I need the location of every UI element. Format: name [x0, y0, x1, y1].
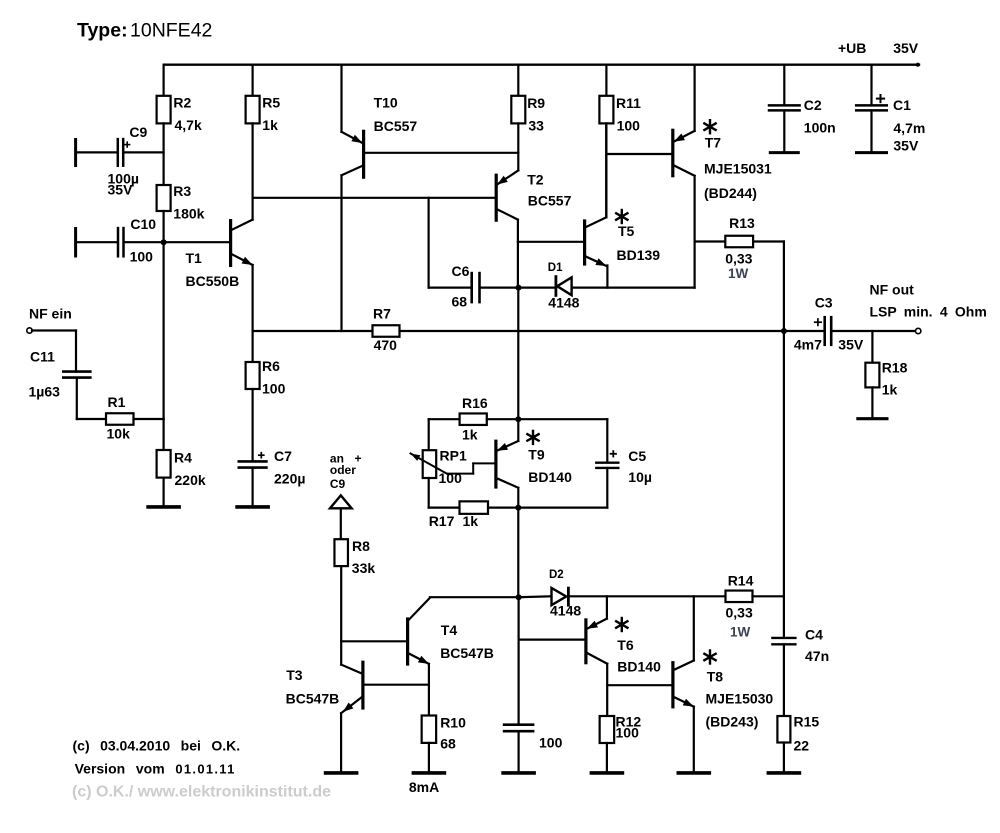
svg-text:T2: T2 — [527, 172, 544, 188]
svg-text:T6: T6 — [617, 637, 634, 653]
svg-text:C7: C7 — [274, 448, 292, 464]
svg-text:NF ein: NF ein — [29, 305, 72, 321]
svg-text:R7: R7 — [373, 306, 391, 322]
svg-text:470: 470 — [374, 337, 398, 353]
svg-text:T3: T3 — [286, 667, 303, 683]
svg-text:1W: 1W — [728, 266, 749, 281]
svg-text:BD140: BD140 — [528, 469, 572, 485]
svg-text:R8: R8 — [352, 538, 370, 554]
svg-text:4,7m: 4,7m — [893, 120, 925, 136]
svg-text:47n: 47n — [805, 648, 829, 664]
svg-text:R18: R18 — [882, 359, 908, 375]
svg-text:(c) 03.04.2010 bei O.K.: (c) 03.04.2010 bei O.K. — [73, 738, 241, 754]
svg-text:RP1: RP1 — [440, 448, 467, 464]
svg-text:R5: R5 — [262, 95, 280, 111]
svg-text:BC547B: BC547B — [440, 645, 494, 661]
svg-text:(BD243): (BD243) — [706, 714, 759, 730]
svg-text:R14: R14 — [728, 573, 754, 589]
svg-text:R4: R4 — [174, 450, 192, 466]
svg-text:100: 100 — [130, 249, 154, 265]
svg-text:R10: R10 — [440, 714, 466, 730]
svg-text:4148: 4148 — [548, 294, 579, 310]
svg-text:4,7k: 4,7k — [175, 117, 202, 133]
svg-text:C6: C6 — [452, 263, 470, 279]
svg-text:D1: D1 — [548, 262, 563, 274]
svg-text:Version vom 01.01.11: Version vom 01.01.11 — [75, 760, 236, 776]
svg-text:T7: T7 — [705, 135, 722, 151]
svg-text:1k: 1k — [462, 426, 478, 442]
svg-text:100: 100 — [539, 735, 563, 751]
svg-text:C10: C10 — [130, 216, 156, 232]
svg-text:C2: C2 — [804, 97, 822, 113]
svg-text:68: 68 — [452, 294, 468, 310]
svg-text:MJE15031: MJE15031 — [704, 161, 772, 177]
svg-text:10NFE42: 10NFE42 — [130, 20, 212, 42]
svg-text:T4: T4 — [441, 622, 458, 638]
svg-text:C9: C9 — [129, 124, 147, 140]
svg-text:R9: R9 — [527, 95, 545, 111]
svg-text:Type:: Type: — [77, 20, 128, 42]
svg-text:MJE15030: MJE15030 — [706, 691, 774, 707]
svg-text:33k: 33k — [352, 560, 376, 576]
svg-text:100: 100 — [262, 381, 286, 397]
svg-text:(c) O.K./ www.elektronikinstit: (c) O.K./ www.elektronikinstitut.de — [72, 783, 331, 800]
svg-text:8mA: 8mA — [409, 779, 439, 795]
svg-text:C11: C11 — [30, 349, 55, 365]
svg-text:T9: T9 — [528, 447, 545, 463]
svg-text:C9: C9 — [330, 477, 346, 491]
svg-text:T10: T10 — [374, 95, 398, 111]
svg-text:220k: 220k — [175, 472, 206, 488]
svg-text:R2: R2 — [173, 95, 191, 111]
svg-text:220µ: 220µ — [274, 471, 305, 487]
svg-text:10µ: 10µ — [628, 469, 652, 485]
svg-text:R1: R1 — [108, 394, 126, 410]
svg-text:33: 33 — [528, 117, 544, 133]
svg-text:C5: C5 — [628, 448, 646, 464]
svg-text:LSP min. 4 Ohm: LSP min. 4 Ohm — [870, 303, 987, 319]
svg-text:0,33: 0,33 — [726, 605, 753, 621]
svg-text:R3: R3 — [173, 183, 191, 199]
svg-text:1k: 1k — [463, 513, 479, 529]
svg-text:100: 100 — [617, 118, 641, 134]
svg-text:35V: 35V — [893, 40, 919, 56]
svg-text:10k: 10k — [107, 426, 131, 442]
svg-text:BD140: BD140 — [617, 659, 661, 675]
svg-text:C1: C1 — [893, 97, 911, 113]
svg-text:BC557: BC557 — [528, 193, 572, 209]
svg-text:R11: R11 — [616, 95, 641, 111]
svg-text:R6: R6 — [262, 358, 280, 374]
svg-text:T5: T5 — [618, 223, 635, 239]
svg-text:BC557: BC557 — [374, 118, 418, 134]
svg-text:(BD244): (BD244) — [704, 185, 757, 201]
svg-text:NF out: NF out — [870, 281, 915, 297]
svg-text:R13: R13 — [729, 215, 755, 231]
svg-text:4m7: 4m7 — [794, 337, 822, 353]
svg-text:100: 100 — [439, 470, 463, 486]
svg-text:0,33: 0,33 — [725, 251, 752, 267]
svg-text:BC547B: BC547B — [286, 690, 340, 706]
svg-text:35V: 35V — [108, 182, 134, 198]
svg-text:oder: oder — [330, 463, 356, 477]
svg-text:1k: 1k — [262, 117, 278, 133]
svg-text:100: 100 — [616, 725, 640, 741]
svg-text:4148: 4148 — [550, 603, 581, 619]
svg-text:D2: D2 — [549, 569, 564, 581]
svg-text:BD139: BD139 — [617, 247, 661, 263]
svg-text:1W: 1W — [730, 625, 751, 640]
svg-text:T1: T1 — [186, 250, 203, 266]
svg-text:68: 68 — [440, 736, 456, 752]
svg-text:180k: 180k — [173, 206, 204, 222]
svg-text:R16: R16 — [462, 395, 488, 411]
svg-text:R17: R17 — [429, 513, 455, 529]
svg-text:C4: C4 — [805, 627, 823, 643]
svg-text:100n: 100n — [804, 120, 836, 136]
svg-text:BC550B: BC550B — [186, 273, 240, 289]
svg-text:1k: 1k — [882, 381, 898, 397]
svg-text:35V: 35V — [838, 337, 864, 353]
svg-text:R15: R15 — [794, 714, 820, 730]
svg-text:T8: T8 — [707, 669, 724, 685]
svg-text:+UB: +UB — [838, 40, 866, 56]
svg-text:35V: 35V — [893, 138, 919, 154]
svg-text:22: 22 — [794, 738, 810, 754]
svg-text:1µ63: 1µ63 — [29, 384, 61, 400]
svg-text:C3: C3 — [815, 294, 833, 310]
